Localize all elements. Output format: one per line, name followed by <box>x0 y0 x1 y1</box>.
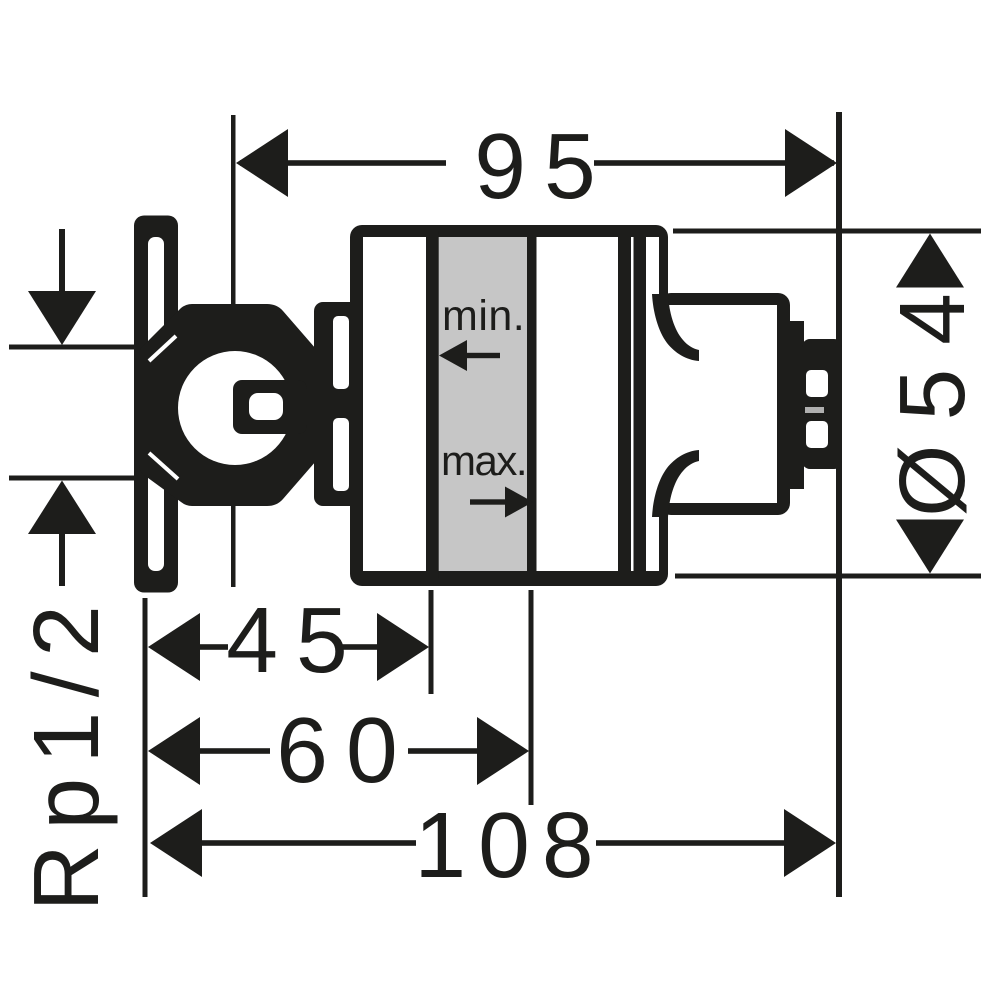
spigot collar <box>790 321 804 489</box>
O54 down arrow <box>896 520 964 574</box>
gap between body and sleeve <box>631 237 634 571</box>
band left line (min position) <box>426 231 439 578</box>
dim 108 right arrow <box>784 809 836 877</box>
sleeve slit <box>646 237 659 571</box>
dim 108 line <box>198 840 416 846</box>
svg-text:60: 60 <box>276 698 415 802</box>
svg-text:95: 95 <box>474 114 613 218</box>
plate/nut edge sliver bottom <box>149 453 178 479</box>
bracket lower slot <box>333 418 349 491</box>
svg-text:Rp1/2: Rp1/2 <box>14 591 118 912</box>
svg-text:108: 108 <box>414 793 605 897</box>
left small dim lower line (y=478) <box>9 476 136 481</box>
body interior <box>363 237 618 571</box>
dim 45 right arrow <box>377 613 429 681</box>
spigot upper notch <box>806 370 828 397</box>
valve body outer <box>350 225 668 586</box>
extension line bottom-left (x=145) <box>143 598 148 897</box>
svg-text:Ø54: Ø54 <box>880 269 984 517</box>
dim 45 left arrow <box>148 613 200 681</box>
spindle bar <box>300 390 352 416</box>
dim 45 line <box>196 644 228 650</box>
O54 up arrow <box>896 234 964 288</box>
O54 bottom extension line (y=576) <box>675 574 981 579</box>
left small dim up arrow <box>28 481 96 535</box>
mounting bracket <box>314 302 361 506</box>
extension line left of 95 dim (x=233) <box>231 115 236 587</box>
outlet tube interior <box>659 305 777 503</box>
dim 60 line <box>200 748 270 754</box>
plate/nut edge sliver top <box>149 336 176 361</box>
extension line 45 right (x=431) <box>429 590 434 694</box>
spigot block <box>802 339 842 469</box>
spindle slot housing <box>233 380 307 434</box>
spigot thread dash <box>805 407 824 413</box>
dim 95 left arrow <box>236 129 288 197</box>
dim 60 right arrow <box>477 717 529 785</box>
left small dim upper line (y=347) <box>9 345 136 350</box>
svg-text:45: 45 <box>226 588 365 692</box>
dim 108 left arrow <box>150 809 202 877</box>
wall plate <box>134 216 178 593</box>
dim 95 right arrow <box>785 129 837 197</box>
outlet tube <box>659 293 790 515</box>
extension line 60 right (x=531) <box>529 590 534 805</box>
max arrow <box>470 499 508 504</box>
top flare <box>652 294 699 361</box>
wall plate slot <box>148 237 164 571</box>
svg-text:min.: min. <box>442 292 525 340</box>
tiling zone band <box>438 237 527 571</box>
min arrow <box>465 353 500 358</box>
hex nut body <box>139 304 322 506</box>
nut inner circle <box>178 351 292 465</box>
svg-text:max.: max. <box>441 437 526 484</box>
left small dim down arrow <box>59 229 65 293</box>
dim 60 left arrow <box>148 717 200 785</box>
band right line (max position) <box>527 231 537 578</box>
O54 top extension line (y=231) <box>673 229 981 234</box>
extension line right (x=839, full height) <box>836 112 842 897</box>
bracket upper slot <box>333 316 349 389</box>
dim 95 line <box>240 160 446 166</box>
spigot lower notch <box>806 421 828 448</box>
spindle slot <box>249 393 283 420</box>
bottom flare <box>652 450 699 517</box>
